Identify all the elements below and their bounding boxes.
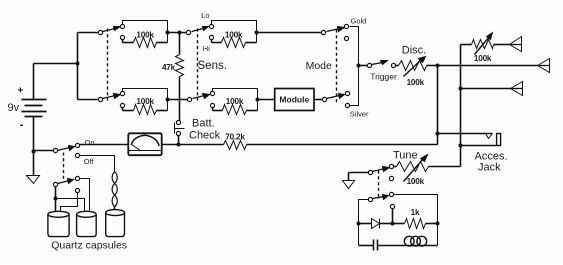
diode D1 [359,219,393,229]
quartz capsule XTAL2 [77,211,97,236]
wire R1 block output to node B [168,32,187,34]
wire node C down to jack [437,66,439,145]
svg-text:Quartz capsules: Quartz capsules [51,240,127,252]
quartz capsule XTAL3 [106,210,125,237]
node I diode row left [357,222,361,226]
node G battery check tap [177,143,181,147]
piezo transducer PZ2 [538,59,550,73]
wire R2 block output to S2b pole [168,99,188,101]
svg-text:Mode: Mode [306,60,332,72]
switch S4 Trigger [367,61,397,82]
switch S3a Mode Gold [321,24,348,40]
piezo transducer PZ1 [510,37,522,52]
node mode output [357,64,361,68]
switch S6a On/Off [53,138,94,166]
wire upper contact to capsule 2 [80,179,90,212]
switch S6b quartz selector [53,176,79,192]
svg-text:100k: 100k [136,30,154,39]
wire R6 to node C column [247,144,438,146]
wire bus to S1a pole [78,32,99,34]
wire to S6a pole [34,150,54,152]
svg-text:100k: 100k [474,54,492,63]
ground GND2 [343,173,369,189]
svg-text:Hi: Hi [203,44,210,53]
svg-text:Gold: Gold [351,17,367,26]
svg-text:+: + [18,86,24,97]
module U1 [275,89,314,111]
wire mode bus to trigger [359,65,368,67]
wire to piezo PZ3 [461,88,511,90]
wire S7b pole to oscillator left [359,200,369,246]
resistor R3 47k [162,33,184,121]
node K right rail [436,222,440,226]
svg-text:Check: Check [189,130,221,142]
potentiometer VR2 100k [461,33,494,64]
piezo transducer PZ3 [511,82,523,96]
wire Gold contact to mode bus [350,27,359,64]
wire VR2 to piezo PZ1 [494,44,510,46]
twisted lead to capsule 3 [112,172,117,210]
svg-text:1k: 1k [411,208,420,217]
svg-text:100k: 100k [407,177,425,186]
gang line S7 [378,171,380,198]
bus vertical to transducers [460,45,462,167]
wire R5 block output to Module [258,99,275,101]
svg-text:On: On [85,138,95,147]
svg-text:Batt.: Batt. [192,118,215,130]
potentiometer VR1 Disc 100k [399,44,427,87]
quartz capsule XTAL1 [48,211,69,236]
node D jack tip [436,132,440,136]
wire jack sleeve [461,145,497,147]
battery B1 9v [8,64,47,152]
svg-text:Jack: Jack [478,162,501,174]
svg-text:70.2k: 70.2k [225,132,245,141]
node F jack sleeve tap [459,144,463,148]
svg-text:100k: 100k [136,97,154,106]
jack tip contact [486,134,493,139]
wire meter to R6 [162,144,224,146]
capacitor C1 [359,240,404,251]
resistor R7 1k [405,208,426,229]
svg-text:Sens.: Sens. [198,60,227,72]
wire trigger to VR1 [396,65,399,67]
svg-text:Trigger: Trigger [370,71,397,81]
wire S6b pole to capsules 1 and 2 [55,187,57,212]
wire node J to R7 [393,223,405,225]
wire battery positive to selector bus [34,63,78,65]
wire lower contact to capsule 1 [61,193,78,212]
node E piezo PZ3 tap [459,87,463,91]
meter M1 [128,133,161,155]
jack sleeve [497,134,501,146]
pushbutton SW5 Batt Check [175,118,221,145]
gang line S2 Sens [197,29,199,101]
switch S2b with resistor R5 100k [187,89,259,115]
svg-text:47k: 47k [162,63,176,72]
node C [436,64,440,68]
wire Silver contact to mode bus [350,68,359,106]
svg-text:Module: Module [279,95,309,105]
wire Off contact to capsule 3 [80,156,115,172]
svg-text:100k: 100k [407,78,425,87]
node H battery negative branch [32,150,36,154]
svg-text:Silver: Silver [350,109,369,118]
wire bus vertical [77,33,79,100]
wire oscillator top [394,195,438,246]
switch S1b with resistor R2 100k [98,89,169,115]
switch S2a Sens with resistor R4 100k [186,11,258,53]
svg-text:100k: 100k [226,97,244,106]
svg-text:100k: 100k [225,30,243,39]
gang line S6 [63,153,65,181]
svg-text:Disc.: Disc. [402,44,426,56]
svg-text:-: - [20,117,24,131]
node bus junction [76,62,80,66]
wire VR3 to bus [429,166,461,168]
node B 47k tap [178,31,182,35]
svg-text:Off: Off [84,157,95,166]
svg-text:Lo: Lo [201,11,209,20]
wire R4 block output to Mode S3a pole [257,32,322,34]
wire On contact to meter [80,144,129,146]
switch S3b Mode Silver [322,91,349,107]
node J test point [391,222,395,226]
svg-text:Tune: Tune [393,150,418,162]
switch S7a Tune [368,164,393,180]
inductor L1 [404,236,438,246]
gang line S1 [107,29,109,101]
wire bus to S1b pole [78,99,99,101]
gang line S3 Mode [336,30,338,103]
wire VR1 to node C [427,65,438,67]
ground GND1 [27,152,40,184]
wire Module to S3b pole [315,99,323,101]
potentiometer VR3 Tune 100k [393,150,429,186]
switch S7b oscillator select [368,192,394,208]
switch S1a with resistor R1 100k [98,21,169,48]
wire R7 to right rail [426,223,438,225]
wire jack tip line [438,133,493,135]
wire node C to piezo PZ2 [438,65,538,67]
svg-text:9v: 9v [8,102,20,114]
resistor R6 70.2k [224,132,247,149]
